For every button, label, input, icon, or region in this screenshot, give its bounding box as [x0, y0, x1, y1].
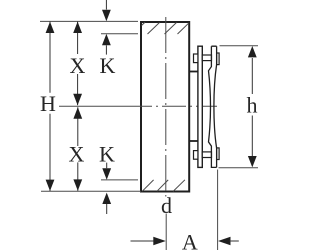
H arrow up: [46, 22, 55, 33]
A dimension right tail: [229, 240, 238, 242]
svg-text:K: K: [99, 141, 115, 166]
K bottom stem below arrow: [106, 204, 108, 214]
clamp left tab top: [194, 54, 198, 63]
X top arrow up: [73, 22, 82, 33]
h arrow down: [248, 156, 257, 167]
clamp bolt top: [202, 55, 211, 61]
hatching top band: [142, 22, 190, 34]
plate cross-section outline: [141, 22, 189, 192]
pipe stub bottom edge: [190, 140, 199, 142]
A arrow right-pointing: [153, 237, 166, 246]
dimension K inner line top: [101, 33, 138, 35]
hatching bottom band: [142, 180, 185, 192]
clamp right tab bottom: [217, 148, 220, 160]
K bottom arrow up: [102, 193, 111, 204]
K bottom stem above arrow: [106, 163, 108, 169]
svg-text:X: X: [69, 141, 85, 166]
clamp inner plate: [198, 46, 202, 167]
dimension X mid extension line: [59, 105, 141, 107]
dimension line h: [251, 58, 253, 156]
dimension line X top: [77, 22, 79, 106]
dimension H extension line bottom: [41, 190, 141, 192]
clamp right tab top: [217, 53, 220, 65]
dimension K inner line bottom: [101, 179, 138, 181]
A dimension left tail: [131, 240, 155, 242]
K top arrow up: [102, 34, 111, 45]
clamp bolt bottom: [202, 152, 211, 158]
dimension h extension line bottom: [219, 167, 259, 169]
dimension line H: [49, 22, 51, 191]
svg-text:H: H: [40, 91, 56, 116]
svg-text:A: A: [182, 230, 198, 250]
clamp left tab bottom: [194, 151, 198, 160]
K bottom arrow down: [102, 168, 111, 179]
X bottom arrow down: [73, 179, 82, 190]
vertical centerline: [165, 17, 167, 197]
horizontal centerline: [141, 105, 217, 107]
svg-text:X: X: [69, 53, 85, 78]
K top arrow down: [102, 10, 111, 21]
H arrow down: [46, 180, 55, 191]
X bottom arrow up: [73, 107, 82, 118]
dimension line K top stem above: [105, 0, 107, 10]
K top stem below arrow: [105, 45, 107, 54]
A extension line right: [217, 170, 219, 250]
dimension h extension line top: [220, 45, 259, 47]
dimension H extension line top: [40, 20, 138, 22]
svg-text:h: h: [247, 92, 258, 117]
svg-text:K: K: [100, 53, 116, 78]
dimension line X bottom: [77, 107, 79, 191]
pipe stub top edge: [190, 71, 199, 73]
A arrow left-pointing: [218, 237, 231, 246]
clamp outer plate and band: [209, 46, 217, 167]
X top arrow down: [73, 94, 82, 105]
A extension line left: [165, 214, 167, 250]
h arrow up: [248, 46, 257, 57]
